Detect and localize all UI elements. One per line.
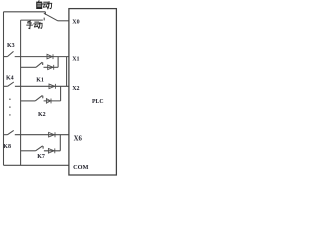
svg-text:PLC: PLC	[92, 99, 104, 105]
contact K2 tick	[42, 96, 44, 99]
svg-text:K2: K2	[38, 112, 46, 118]
row1 main wire to X1	[15, 56, 70, 58]
row3 branch wire from manual bus	[21, 150, 36, 152]
contact K4 blade	[8, 82, 14, 86]
diode D6 row3 branch	[48, 148, 54, 153]
row1 branch wire from manual bus	[21, 66, 36, 68]
wire: manual contact to manual bus corner	[21, 19, 43, 21]
contact K8 stub	[4, 134, 8, 136]
row2 main wire to X2	[15, 85, 69, 87]
manual fixed contact tick	[43, 18, 45, 21]
manual bus vertical	[20, 20, 22, 165]
row3 branch wire resume	[44, 150, 60, 152]
diode D4 row2 branch	[46, 99, 51, 104]
diode D2 row1 branch	[48, 65, 54, 70]
svg-text:COM: COM	[73, 164, 88, 171]
contact K8 blade	[8, 130, 14, 134]
join vertical row1	[57, 57, 59, 68]
contact K7 tick	[42, 146, 44, 149]
PLC box	[69, 9, 117, 175]
contact K1 tick	[42, 62, 44, 65]
svg-text:K7: K7	[37, 154, 45, 160]
contact K1 blade	[36, 62, 42, 67]
svg-text:K4: K4	[6, 75, 14, 81]
label 手动 (manual)	[26, 21, 42, 29]
svg-text:K3: K3	[7, 43, 15, 49]
auto fixed contact tick	[44, 12, 46, 15]
bottom COM wire	[4, 164, 70, 166]
contact K2 blade	[35, 95, 42, 101]
svg-text:X1: X1	[72, 56, 79, 62]
row2 branch wire resume	[44, 100, 61, 102]
svg-text:K1: K1	[36, 78, 44, 84]
contact K3 blade	[7, 51, 13, 56]
row1 branch wire resume	[44, 66, 59, 68]
svg-text:X6: X6	[74, 135, 83, 142]
contact K3 stub	[4, 56, 8, 58]
row2 branch wire from manual bus	[21, 100, 36, 102]
contact K4 stub	[4, 85, 8, 87]
svg-text:X0: X0	[72, 20, 79, 26]
diode D1 row1 main	[47, 54, 53, 59]
selector switch blade SA	[44, 13, 58, 21]
row3 main wire to X6	[15, 134, 70, 136]
ellipsis dots	[9, 98, 11, 115]
wire: selector pole to X0	[58, 20, 69, 22]
contact K7 blade	[36, 146, 43, 151]
label 自动 (auto)	[37, 0, 53, 9]
link vertical row1-row2	[66, 57, 68, 87]
join vertical row3	[59, 135, 61, 151]
svg-text:K8: K8	[3, 144, 11, 150]
wire: left bus top to auto contact	[4, 11, 46, 13]
svg-text:X2: X2	[72, 86, 79, 92]
diode D5 row3 main	[49, 132, 55, 137]
join vertical row2	[60, 86, 62, 101]
left bus (auto) vertical	[3, 12, 5, 166]
diode D3 row2 main	[49, 84, 55, 89]
